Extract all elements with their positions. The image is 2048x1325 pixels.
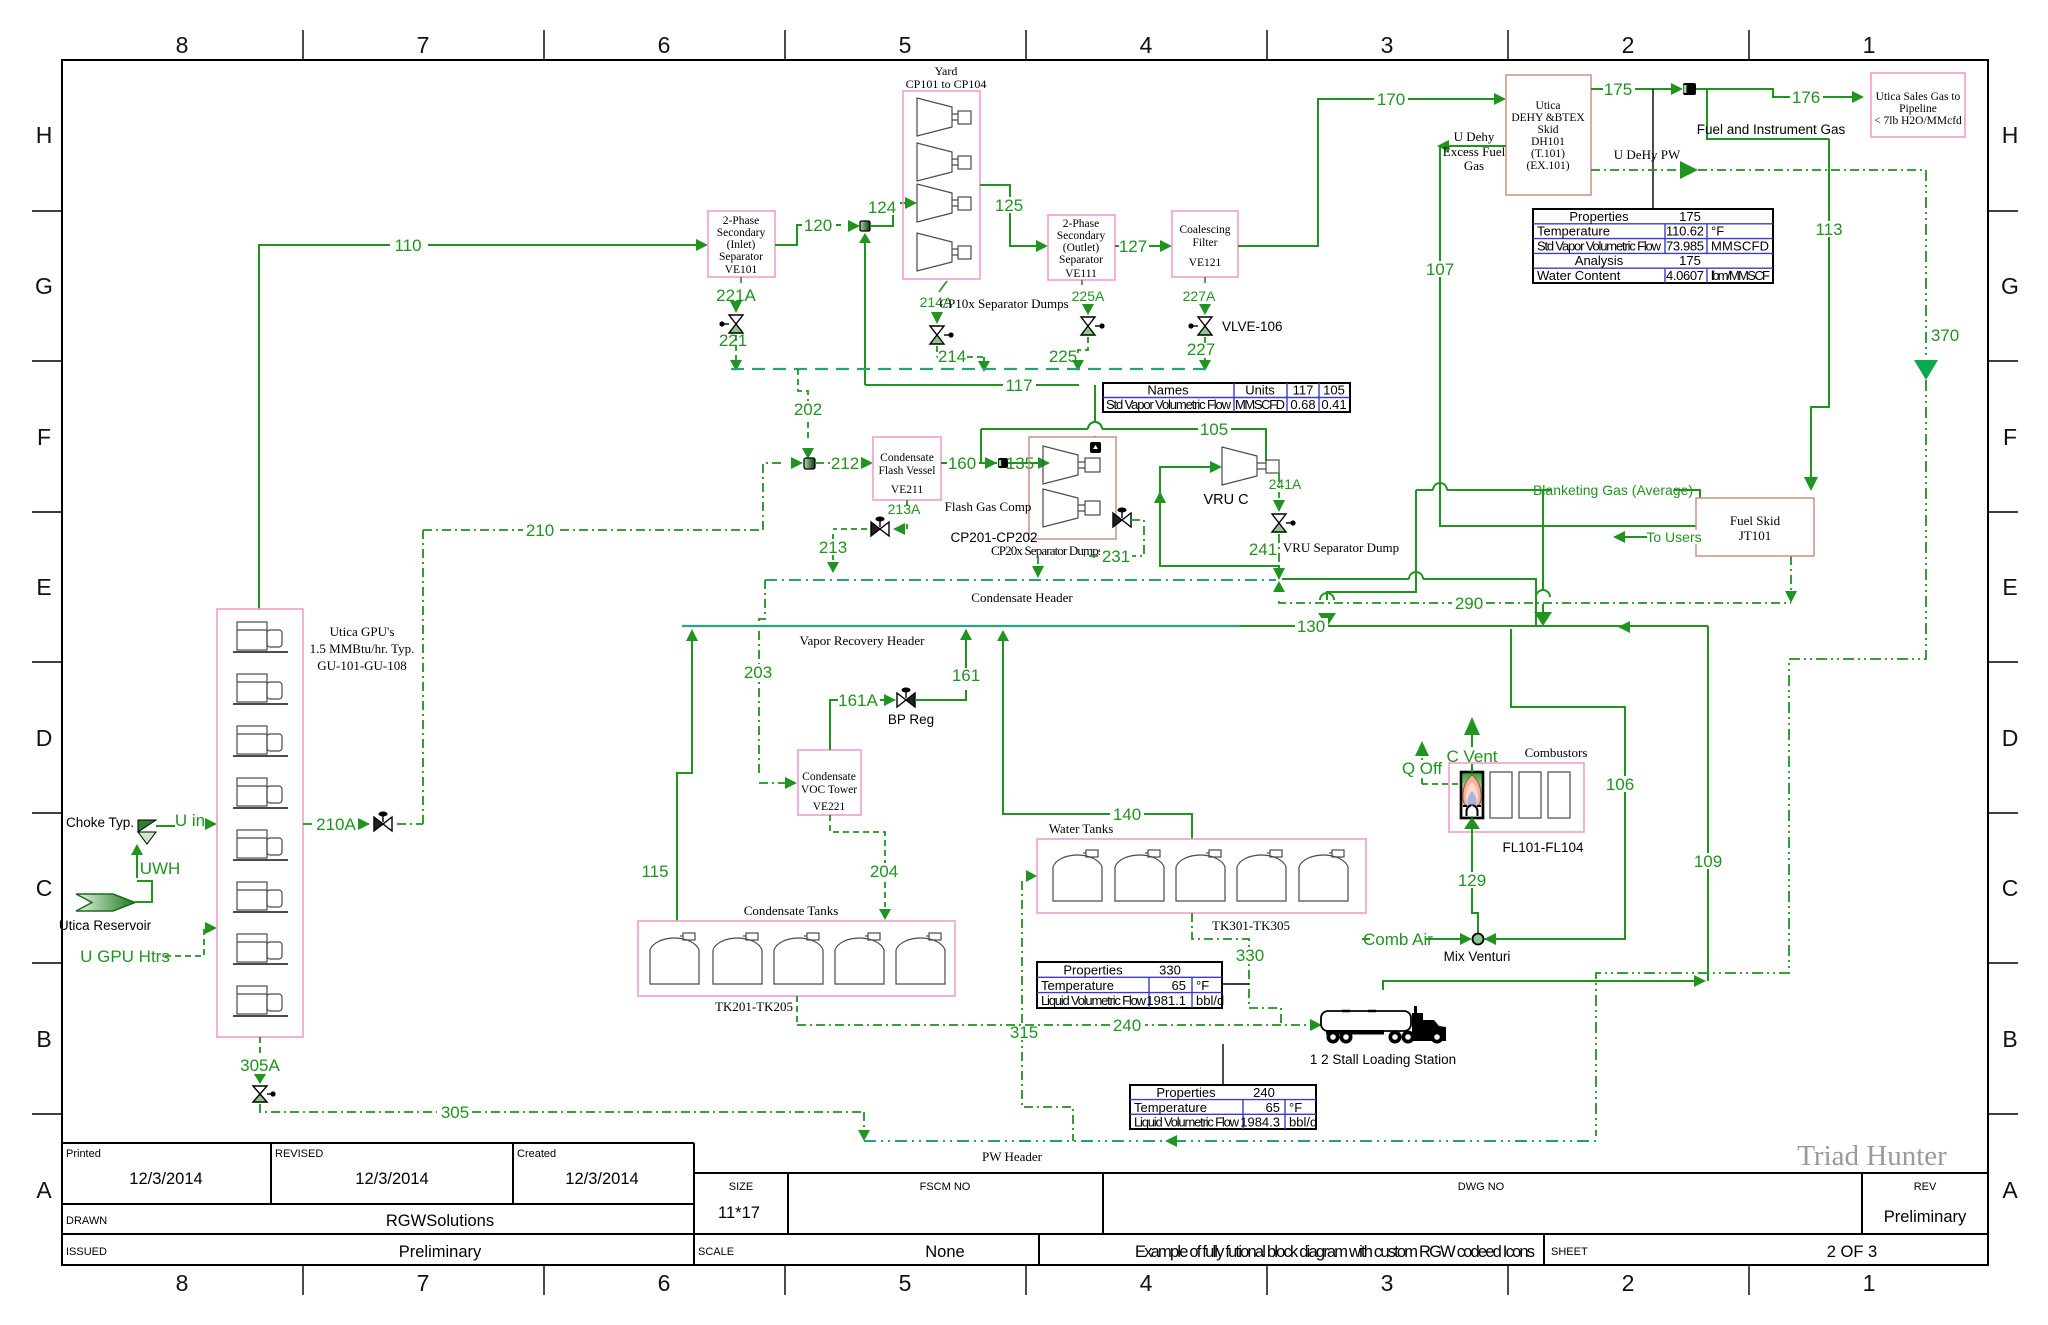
svg-text:G: G: [35, 273, 53, 299]
svg-text:FL101-FL104: FL101-FL104: [1502, 840, 1584, 855]
bottom border ticks: [303, 1265, 1749, 1295]
svg-text:Properties: Properties: [1569, 209, 1629, 224]
svg-text:Fuel and Instrument Gas: Fuel and Instrument Gas: [1697, 122, 1846, 137]
wire stream 124 to yard compressors: [870, 203, 905, 226]
svg-text:212: 212: [831, 454, 859, 473]
svg-text:SIZE: SIZE: [729, 1181, 753, 1193]
block Utica Sales Gas to Pipeline: [1871, 73, 1965, 137]
svg-text:175: 175: [1679, 253, 1701, 268]
node junction 175 split: [1683, 83, 1696, 95]
wire stream 305 to PW header: [260, 1104, 864, 1130]
svg-text:210: 210: [526, 521, 554, 540]
svg-text:7: 7: [417, 1270, 430, 1296]
wire stream 109: [1383, 626, 1708, 990]
svg-text:113: 113: [1815, 220, 1842, 239]
svg-text:Properties: Properties: [1063, 963, 1123, 978]
wire U Dehy excess fuel gas to 107: [1446, 145, 1506, 147]
svg-text:127: 127: [1119, 237, 1147, 256]
svg-text:210A: 210A: [316, 815, 356, 834]
valve BP Reg: [897, 688, 915, 708]
svg-text:RGWSolutions: RGWSolutions: [386, 1212, 494, 1230]
svg-text:(Inlet): (Inlet): [727, 239, 756, 251]
svg-text:MMSCFD: MMSCFD: [1711, 238, 1769, 253]
svg-text:Combustors: Combustors: [1525, 745, 1588, 760]
svg-text:140: 140: [1113, 805, 1141, 824]
wire stream 127: [1115, 245, 1160, 247]
svg-text:To Users: To Users: [1646, 529, 1701, 545]
svg-text:Gas: Gas: [1464, 158, 1484, 173]
svg-text:TK301-TK305: TK301-TK305: [1212, 918, 1290, 933]
svg-text:Properties: Properties: [1156, 1085, 1216, 1100]
valve 210A: [374, 812, 392, 832]
svg-text:12/3/2014: 12/3/2014: [129, 1170, 202, 1188]
svg-text:1: 1: [1863, 32, 1876, 58]
svg-text:None: None: [925, 1243, 964, 1261]
svg-text:°F: °F: [1289, 1100, 1302, 1115]
wire to users: [1625, 536, 1696, 538]
wire stream 135 into compressor: [1008, 462, 1038, 464]
svg-text:290: 290: [1455, 594, 1483, 613]
macro icon: [1090, 442, 1101, 453]
wire reservoir to choke: [135, 853, 152, 902]
wire stream 202 from header to node 212: [798, 369, 808, 440]
valve 241: [1272, 514, 1296, 532]
vessel VE101 2-Phase Secondary (Inlet) Separator: [708, 211, 775, 277]
svg-text:Yard: Yard: [935, 64, 958, 78]
svg-text:175: 175: [1679, 209, 1701, 224]
svg-text:Std Vapor Volumetric Flow: Std Vapor Volumetric Flow: [1537, 238, 1662, 253]
svg-text:A: A: [2002, 1177, 2018, 1203]
svg-text:Blanketing Gas (Average): Blanketing Gas (Average): [1533, 482, 1693, 498]
wire U DeHy PW dash line: [1591, 169, 1676, 171]
wire 210 up to node 212: [763, 463, 785, 530]
svg-text:REV: REV: [1914, 1181, 1937, 1193]
svg-text:D: D: [2002, 725, 2019, 751]
valve CP20x dump: [1113, 508, 1131, 528]
svg-text:106: 106: [1606, 775, 1634, 794]
choke icon Choke Typ.: [138, 820, 156, 832]
wire stream 176 to sales pipeline: [1696, 89, 1855, 97]
svg-text:U in: U in: [175, 811, 205, 830]
svg-text:0.68: 0.68: [1290, 397, 1315, 412]
svg-text:Skid: Skid: [1537, 124, 1558, 136]
truck 1 2 Stall Loading Station: [1321, 1006, 1446, 1044]
wire stream 290: [1279, 556, 1791, 603]
compressor group CP201-CP202 Flash Gas Comp: [1029, 437, 1116, 539]
svg-text:B: B: [2002, 1026, 2017, 1052]
wire VE111 dump stub: [1081, 280, 1083, 285]
svg-text:7: 7: [417, 32, 430, 58]
vessel VE211 Condensate Flash Vessel: [873, 437, 941, 500]
svg-text:Liquid Volumetric Flow: Liquid Volumetric Flow: [1134, 1115, 1240, 1130]
wire VRU C suction loop: [1160, 467, 1279, 575]
node junction 212: [804, 458, 815, 469]
wire stream 110 from GPU header up to VE101: [259, 245, 700, 609]
svg-text:D: D: [36, 725, 53, 751]
svg-text:GU-101-GU-108: GU-101-GU-108: [317, 658, 407, 673]
svg-text:221: 221: [719, 331, 747, 350]
wire 227 dump to header: [1204, 337, 1206, 361]
svg-text:VOC Tower: VOC Tower: [801, 784, 857, 796]
svg-text:Condensate: Condensate: [802, 771, 856, 783]
wire stream 161 to vapor header: [915, 630, 966, 700]
wire stream 115 to vapor header: [677, 632, 692, 921]
svg-text:204: 204: [870, 862, 898, 881]
svg-text:135: 135: [1006, 454, 1034, 473]
svg-text:UWH: UWH: [140, 859, 181, 878]
svg-text:2-Phase: 2-Phase: [1063, 218, 1099, 230]
svg-text:U DeHy PW: U DeHy PW: [1614, 147, 1681, 162]
wire CP20x dumps to condensate header: [1038, 520, 1144, 564]
wire stream 105 VRU C to suction node: [981, 422, 1266, 463]
wire stream 170 to DEHY skid: [1238, 99, 1496, 246]
svg-text:Utica: Utica: [1536, 100, 1561, 112]
svg-text:Flash Vessel: Flash Vessel: [879, 465, 936, 477]
separator dumps header dashed: [731, 368, 1205, 370]
valve 214: [930, 326, 954, 344]
wire 221 dump to header: [735, 335, 737, 360]
svg-text:73.985: 73.985: [1666, 238, 1704, 253]
svg-text:VE111: VE111: [1065, 268, 1097, 280]
left row letters: [35, 122, 53, 1203]
wire stream 117 horizontal: [865, 384, 1079, 386]
svg-text:330: 330: [1159, 963, 1181, 978]
svg-text:115: 115: [641, 862, 668, 881]
names units table: [1103, 383, 1350, 413]
svg-text:161A: 161A: [838, 691, 878, 710]
svg-text:VE221: VE221: [813, 801, 846, 813]
svg-text:Choke Typ.: Choke Typ.: [66, 815, 134, 830]
compressor CP202: [1043, 489, 1100, 527]
wire fuel and instrument gas: [1707, 89, 1829, 139]
svg-text:F: F: [37, 424, 51, 450]
unit DH101 Utica DEHY and BTEX Skid: [1506, 75, 1591, 195]
svg-text:Q Off: Q Off: [1402, 759, 1443, 778]
arrow into VE101: [696, 239, 708, 251]
svg-text:Preliminary: Preliminary: [1884, 1208, 1967, 1226]
wire stream 140 to water tanks: [1003, 632, 1192, 839]
node junction 120/124/117: [860, 221, 870, 231]
svg-text:bbl/d: bbl/d: [1289, 1115, 1317, 1130]
title block gridlines: [62, 1143, 1988, 1265]
svg-text:DRAWN: DRAWN: [66, 1215, 107, 1227]
svg-text:3: 3: [1381, 32, 1394, 58]
svg-text:U GPU Htrs: U GPU Htrs: [80, 947, 170, 966]
wire stream 240 from tanks: [796, 996, 798, 1025]
svg-text:227: 227: [1187, 340, 1215, 359]
svg-text:240: 240: [1253, 1085, 1275, 1100]
condensate tank icons x5: [650, 933, 945, 984]
svg-text:Water Tanks: Water Tanks: [1049, 821, 1114, 836]
svg-text:305: 305: [441, 1103, 469, 1122]
svg-text:Example of fully futional blo: Example of fully futional block diagram …: [1135, 1243, 1535, 1261]
svg-text:2 OF 3: 2 OF 3: [1827, 1243, 1877, 1261]
svg-text:(Outlet): (Outlet): [1063, 242, 1100, 254]
svg-text:JT101: JT101: [1739, 528, 1772, 543]
svg-text:C: C: [2002, 875, 2019, 901]
svg-text:65: 65: [1172, 978, 1186, 993]
svg-text:Flash Gas Comp: Flash Gas Comp: [945, 499, 1032, 514]
svg-text:G: G: [2001, 273, 2019, 299]
svg-text:124: 124: [868, 198, 896, 217]
top column numbers: [176, 32, 1876, 58]
compressor CP102: [917, 143, 971, 181]
svg-text:0.41: 0.41: [1321, 397, 1346, 412]
wire stream 370 down right side: [1925, 170, 1927, 358]
wire stream 210 dash: [423, 529, 763, 531]
wire stream 210A with valve: [303, 530, 423, 824]
svg-text:3: 3: [1381, 1270, 1394, 1296]
wire 225 dump to header: [1078, 337, 1088, 356]
svg-text:130: 130: [1297, 617, 1325, 636]
filter VE121 Coalescing Filter: [1172, 211, 1238, 277]
svg-text:175: 175: [1604, 80, 1632, 99]
svg-text:105: 105: [1323, 383, 1345, 398]
venturi mix circle: [1473, 934, 1484, 945]
wire 203 into VOC tower: [759, 782, 785, 784]
svg-text:MMSCFD: MMSCFD: [1235, 397, 1285, 412]
svg-text:213: 213: [819, 538, 847, 557]
svg-text:160: 160: [948, 454, 976, 473]
label Utica GPUs: [310, 624, 415, 673]
svg-text:C: C: [36, 875, 53, 901]
svg-text:107: 107: [1426, 260, 1454, 279]
svg-text:Temperature: Temperature: [1041, 978, 1114, 993]
svg-text:Names: Names: [1147, 383, 1189, 398]
tank group Water Tanks: [1037, 839, 1366, 913]
svg-text:FSCM NO: FSCM NO: [920, 1181, 971, 1193]
svg-text:Temperature: Temperature: [1134, 1100, 1207, 1115]
condensate header dash: [765, 579, 1276, 581]
svg-text:VE101: VE101: [725, 264, 758, 276]
svg-text:H: H: [2002, 122, 2019, 148]
svg-text:105: 105: [1200, 420, 1228, 439]
svg-text:227A: 227A: [1183, 288, 1216, 304]
svg-text:Utica Sales Gas to: Utica Sales Gas to: [1876, 91, 1961, 103]
svg-text:C Vent: C Vent: [1446, 747, 1497, 766]
svg-text:H: H: [36, 122, 53, 148]
properties table for stream 240: [1130, 1085, 1317, 1130]
svg-text:2: 2: [1622, 1270, 1635, 1296]
unit JT101 Fuel Skid: [1696, 498, 1814, 556]
svg-text:ISSUED: ISSUED: [66, 1246, 107, 1258]
wire 305A from GPU box: [259, 1037, 261, 1053]
svg-text:1981.1: 1981.1: [1146, 993, 1186, 1008]
svg-text:A: A: [36, 1177, 52, 1203]
svg-text:Separator: Separator: [1059, 254, 1103, 266]
svg-text:VRU Separator Dump: VRU Separator Dump: [1283, 540, 1399, 555]
right border ticks: [1988, 211, 2018, 1114]
compressor group Yard CP101 to CP104: [903, 91, 980, 279]
wire 117 drop to CP201 with hop over 105: [1088, 385, 1102, 437]
valve 213: [871, 517, 889, 537]
svg-text:Temperature: Temperature: [1537, 224, 1610, 239]
svg-text:Coalescing: Coalescing: [1179, 224, 1230, 236]
svg-text:65: 65: [1266, 1100, 1280, 1115]
svg-text:Liquid Volumetric Flow: Liquid Volumetric Flow: [1041, 993, 1147, 1008]
svg-text:F: F: [2003, 424, 2017, 450]
svg-text:117: 117: [1293, 383, 1314, 398]
svg-text:129: 129: [1458, 871, 1486, 890]
svg-text:PW Header: PW Header: [982, 1149, 1043, 1164]
GPU group box GU-101-GU-108: [217, 609, 303, 1037]
svg-text:241: 241: [1249, 540, 1277, 559]
svg-text:315: 315: [1010, 1023, 1038, 1042]
wire U in to GPU: [156, 824, 205, 826]
compressor CP201: [1043, 446, 1100, 484]
wire stream 315 water tanks inlet: [1022, 881, 1073, 1141]
node junction 135: [998, 458, 1008, 468]
svg-text:225: 225: [1049, 347, 1077, 366]
svg-text:SCALE: SCALE: [698, 1246, 734, 1258]
svg-text:°F: °F: [1196, 978, 1209, 993]
svg-text:E: E: [36, 574, 51, 600]
svg-text:12/3/2014: 12/3/2014: [565, 1170, 638, 1188]
svg-text:(EX.101): (EX.101): [1526, 160, 1569, 172]
svg-text:Vapor Recovery Header: Vapor Recovery Header: [800, 633, 926, 648]
bottom column numbers: [176, 1270, 1876, 1296]
arrow into node 120: [848, 220, 860, 232]
wire stream 107 riser: [1439, 146, 1441, 490]
svg-text:2-Phase: 2-Phase: [723, 215, 759, 227]
svg-text:110.62: 110.62: [1666, 224, 1704, 239]
svg-text:TK201-TK205: TK201-TK205: [715, 999, 793, 1014]
PW header: [864, 1140, 1596, 1142]
svg-text:E: E: [2002, 574, 2017, 600]
svg-text:Triad Hunter: Triad Hunter: [1797, 1140, 1947, 1172]
svg-text:Created: Created: [517, 1148, 556, 1160]
wire U GPU Htrs dashed: [165, 928, 211, 956]
svg-text:330: 330: [1236, 946, 1264, 965]
svg-text:214: 214: [938, 347, 966, 366]
svg-text:125: 125: [995, 196, 1023, 215]
svg-text:VE211: VE211: [891, 484, 923, 496]
svg-text:6: 6: [658, 32, 671, 58]
svg-text:Mix Venturi: Mix Venturi: [1444, 949, 1511, 964]
svg-text:DWG NO: DWG NO: [1458, 1181, 1505, 1193]
svg-text:DEHY &BTEX: DEHY &BTEX: [1511, 112, 1585, 124]
svg-text:CP10x Separator Dumps: CP10x Separator Dumps: [939, 296, 1068, 311]
leader 240 table: [1222, 1044, 1224, 1085]
svg-text:231: 231: [1102, 547, 1130, 566]
valve 221: [719, 315, 743, 333]
wire condensate header down to 203: [759, 580, 765, 776]
combustor cells x3: [1490, 772, 1512, 818]
svg-text:Units: Units: [1245, 383, 1275, 398]
svg-text:4: 4: [1140, 32, 1153, 58]
svg-text:Printed: Printed: [66, 1148, 101, 1160]
svg-text:161: 161: [952, 666, 980, 685]
leader line from 175 to properties table: [1652, 89, 1654, 209]
svg-text:Analysis: Analysis: [1575, 253, 1624, 268]
svg-text:Comb Air: Comb Air: [1363, 930, 1433, 949]
leader to 214A: [939, 281, 947, 292]
svg-text:(T.101): (T.101): [1531, 148, 1565, 160]
combustor group Combustors: [1449, 763, 1584, 832]
valve 305A: [253, 1086, 276, 1102]
water tank icons x5: [1053, 850, 1348, 901]
wire stream 106: [1484, 629, 1625, 939]
tower VE221 Condensate VOC Tower: [798, 750, 861, 815]
svg-text:Secondary: Secondary: [717, 227, 766, 239]
svg-text:8: 8: [176, 1270, 189, 1296]
wire 214 dump to header: [937, 346, 984, 361]
svg-text:U Dehy: U Dehy: [1454, 129, 1495, 144]
svg-text:Preliminary: Preliminary: [399, 1243, 482, 1261]
wire stream 125 yard to VE111: [980, 185, 1036, 246]
svg-text:110: 110: [394, 236, 421, 255]
svg-text:Utica Reservoir: Utica Reservoir: [59, 918, 152, 933]
svg-text:1.5 MMBtu/hr. Typ.: 1.5 MMBtu/hr. Typ.: [310, 641, 415, 656]
wire VE121 dump stub: [1204, 277, 1206, 283]
properties table for stream 330: [1037, 962, 1224, 1008]
svg-text:Fuel Skid: Fuel Skid: [1730, 513, 1781, 528]
svg-text:203: 203: [744, 663, 772, 682]
svg-text:6: 6: [658, 1270, 671, 1296]
svg-text:CP20x Separator Dumps: CP20x Separator Dumps: [991, 543, 1103, 558]
svg-text:VE121: VE121: [1189, 257, 1222, 269]
properties table for stream 175: [1533, 209, 1773, 283]
wire TK301 drain to 330: [1192, 913, 1281, 1025]
compressor VRU C: [1222, 447, 1279, 485]
wire VE101 dump stub: [740, 277, 742, 283]
svg-text:1984.3: 1984.3: [1240, 1115, 1280, 1130]
wire comb air: [1362, 938, 1460, 940]
right row letters: [2001, 122, 2019, 1203]
wire stream 160: [941, 462, 997, 464]
wire stream 161A to BP Reg: [830, 700, 884, 750]
svg-text:370: 370: [1931, 326, 1959, 345]
svg-text:Condensate Tanks: Condensate Tanks: [744, 903, 839, 918]
wire stream 120 VE101 to junction node: [775, 225, 841, 245]
wire stream 117 riser to node: [864, 243, 866, 385]
svg-text:Water Content: Water Content: [1537, 268, 1621, 283]
compressor CP104: [917, 233, 971, 271]
svg-text:170: 170: [1377, 90, 1405, 109]
left border ticks: [32, 211, 62, 1114]
tank group Condensate Tanks: [638, 921, 955, 996]
vapor recovery header line 130: [682, 625, 1240, 627]
svg-text:11*17: 11*17: [718, 1204, 760, 1222]
wire stream 129 venturi to flame: [1472, 829, 1478, 933]
svg-text:DH101: DH101: [1531, 136, 1565, 148]
svg-text:225A: 225A: [1072, 288, 1105, 304]
svg-text:Excess Fuel: Excess Fuel: [1443, 144, 1506, 159]
svg-text:5: 5: [899, 32, 912, 58]
svg-text:Condensate: Condensate: [880, 452, 934, 464]
wire Q off dashed: [1422, 758, 1461, 784]
wire C vent: [1471, 735, 1473, 772]
svg-text:Std Vapor Volumetric Flow: Std Vapor Volumetric Flow: [1106, 397, 1232, 412]
svg-text:°F: °F: [1711, 224, 1724, 239]
svg-text:4.0607: 4.0607: [1666, 268, 1704, 283]
svg-text:120: 120: [804, 216, 832, 235]
svg-text:5: 5: [899, 1270, 912, 1296]
svg-text:117: 117: [1005, 376, 1032, 395]
flame icon FL101: [1461, 772, 1483, 818]
svg-text:176: 176: [1792, 88, 1820, 107]
svg-text:Separator: Separator: [719, 251, 763, 263]
wire stream 204 to condensate tanks: [830, 815, 885, 907]
svg-text:240: 240: [1113, 1016, 1141, 1035]
GPU icons x8: [233, 622, 288, 1016]
reservoir icon Utica Reservoir: [76, 894, 135, 911]
label Q Off: [1398, 760, 1446, 776]
svg-text:4: 4: [1140, 1270, 1153, 1296]
svg-text:Condensate Header: Condensate Header: [971, 590, 1073, 605]
wire stream 175: [1591, 88, 1671, 90]
vessel VE111 2-Phase Secondary (Outlet) Separator: [1048, 215, 1115, 280]
